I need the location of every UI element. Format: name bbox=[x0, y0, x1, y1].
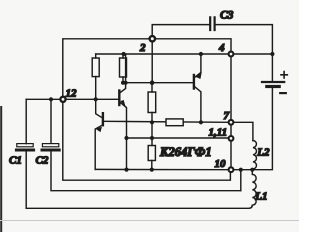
svg-text:L1: L1 bbox=[254, 191, 267, 203]
transistor Tb bar bbox=[102, 113, 104, 125]
wire pin12 line left to C1 bbox=[26, 98, 60, 100]
junction dot Ta collector base line bbox=[124, 81, 128, 85]
capacitor C2 top lead bbox=[50, 99, 52, 143]
svg-text:К264ГФ1: К264ГФ1 bbox=[159, 145, 212, 159]
svg-text:C3: C3 bbox=[220, 10, 234, 22]
resistor R4 bbox=[166, 119, 183, 126]
wire node 2 to pin 4 bbox=[152, 39, 231, 51]
wire 1-11 line bbox=[127, 137, 228, 139]
bottom row from Tb emitter to pin 10 bbox=[95, 168, 227, 170]
junction dot R2 top on rail bbox=[122, 52, 126, 56]
transistor Ta emitter with arrow bbox=[120, 103, 126, 170]
junction dot rail B vertical bbox=[239, 168, 243, 172]
transistor Ta bar bbox=[118, 91, 120, 106]
junction dot Ta emitter 1-11 line bbox=[124, 136, 128, 140]
svg-text:C2: C2 bbox=[36, 155, 49, 167]
battery long plate plus bbox=[262, 81, 284, 83]
capacitor C2 bbox=[42, 144, 59, 150]
wire pin12 right with branch down to rail A bbox=[66, 98, 96, 100]
node 2 terminal circle bbox=[150, 36, 155, 41]
capacitor C2 bottom lead to rail C bbox=[51, 152, 241, 191]
resistor R3 column with leads bbox=[151, 83, 153, 92]
resistor R1 bbox=[92, 58, 99, 77]
wire pin 7 line bbox=[104, 121, 228, 122]
svg-text:4: 4 bbox=[218, 42, 225, 54]
capacitor C1 top lead bbox=[25, 99, 27, 143]
page artifact faint line bottom bbox=[0, 220, 299, 222]
transistor Ta emitter arrowhead bbox=[121, 100, 125, 105]
resistor R1 top lead bbox=[95, 54, 97, 58]
junction dot Tc collector pin7 line bbox=[199, 120, 203, 124]
inductor L1 bbox=[252, 170, 256, 205]
transistor Tc bar bbox=[193, 75, 195, 89]
wire supply rail y54 bbox=[96, 53, 228, 55]
wire C3 right to battery column bbox=[216, 25, 273, 54]
svg-text:10: 10 bbox=[215, 158, 227, 170]
transistor Tc PNP emitter from rail bbox=[195, 54, 201, 77]
svg-text:C1: C1 bbox=[9, 155, 22, 167]
resistor R3 bottom lead bbox=[151, 113, 153, 146]
transistor Ta base wire from pin12 line bbox=[96, 98, 119, 100]
pin 4 circle bbox=[229, 52, 234, 57]
junction dot pin2 vertical base line bbox=[150, 80, 155, 85]
junction dot R5 bottom row bbox=[150, 168, 154, 172]
wire base line y83.5 to PNP bbox=[123, 82, 193, 84]
label minus bbox=[280, 92, 286, 94]
capacitor C1 bbox=[16, 144, 33, 150]
junction dot R2 bottom base line bbox=[121, 81, 125, 85]
junction dot R3 bottom pin7 line bbox=[150, 120, 154, 124]
pin 7 circle bbox=[229, 120, 234, 125]
junction dot Tc emitter on rail bbox=[199, 52, 203, 56]
svg-text:L2: L2 bbox=[256, 147, 270, 159]
page edge artifact left bbox=[0, 107, 2, 232]
wire pin10 row right to battery bottom bbox=[235, 88, 273, 191]
resistor R5 bbox=[148, 146, 155, 161]
battery top lead bbox=[271, 54, 273, 81]
junction dot Ta emitter bottom row bbox=[124, 168, 128, 172]
wire pin2 vertical down to base line bbox=[151, 42, 153, 83]
resistor R2 bbox=[120, 58, 127, 77]
pin 12 circle bbox=[60, 97, 65, 102]
svg-text:7: 7 bbox=[224, 110, 230, 122]
wire L1 bottom to rail D bbox=[26, 205, 252, 208]
transistor Tc collector down to pin7 line bbox=[195, 87, 201, 123]
svg-text:2: 2 bbox=[139, 42, 146, 54]
resistor R1 bottom lead to T-b base column bbox=[96, 77, 102, 118]
pin 1,11 circle bbox=[229, 136, 234, 141]
wire pin 7 to L2 bbox=[235, 122, 253, 140]
pin 10 circle bbox=[229, 167, 234, 172]
resistor R3 bbox=[148, 92, 156, 113]
junction dot R1 bottom pin12 line bbox=[94, 97, 98, 101]
wire rail pin4 to battery bbox=[235, 53, 273, 55]
IC right boundary bbox=[230, 57, 232, 166]
resistor R5 bottom lead bbox=[151, 161, 153, 170]
label plus bbox=[281, 72, 287, 78]
svg-text:1,11: 1,11 bbox=[209, 127, 228, 139]
wire C3 branch up from node 2 bbox=[152, 25, 209, 39]
resistor R2 bottom lead bbox=[122, 77, 124, 83]
wire rail D up to C1 bbox=[25, 152, 27, 209]
transistor Ta collector bbox=[120, 54, 125, 93]
junction dot battery top bbox=[270, 52, 274, 56]
resistor R2 top lead bbox=[122, 54, 124, 58]
junction dot C2 top bbox=[49, 97, 53, 101]
transistor Tb emitter arrowhead bbox=[96, 127, 102, 131]
transistor Tc emitter arrowhead bbox=[196, 73, 202, 79]
wire top loop from node 2 left and down to rail B bbox=[63, 39, 231, 180]
junction dot L1 L2 bottom row bbox=[250, 168, 254, 172]
battery short plate minus bbox=[267, 85, 279, 88]
junction dot R5 top 1-11 line bbox=[150, 136, 154, 140]
transistor Tb emitter with arrow bbox=[95, 126, 102, 170]
inductor L2 bbox=[253, 141, 257, 170]
capacitor C3 bbox=[210, 17, 214, 30]
svg-text:12: 12 bbox=[66, 88, 78, 100]
